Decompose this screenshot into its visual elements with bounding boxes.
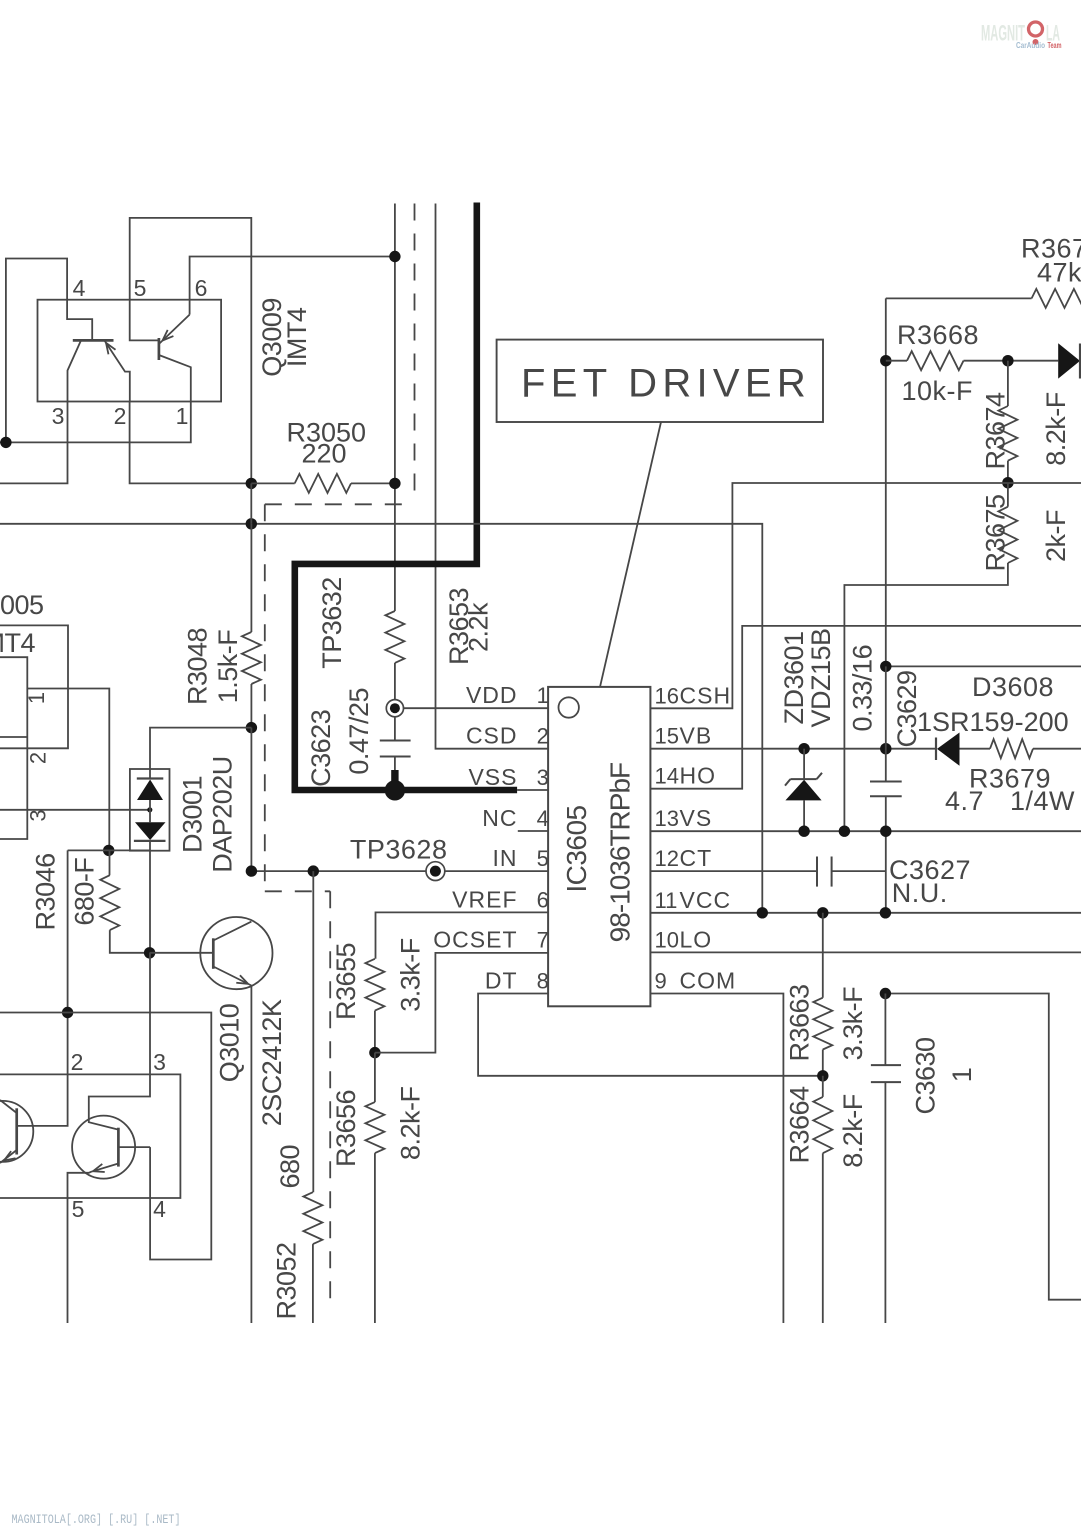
junction dot zener bottom: [798, 826, 809, 837]
dashed boundary horizontal y=891.3: [265, 890, 330, 892]
transistor bottom-left left NPN collector (cut): [0, 1100, 17, 1113]
svg-text:IMT4: IMT4: [282, 307, 312, 367]
wire HO pin14 net to right: [650, 626, 1081, 789]
leader line from FET DRIVER box to IC3605: [600, 422, 661, 687]
svg-text:R3674: R3674: [981, 392, 1011, 470]
wire x=885.8 vertical from y=298.4: [885, 298, 887, 666]
svg-text:3: 3: [52, 403, 65, 429]
svg-text:8.2k-F: 8.2k-F: [838, 1094, 868, 1168]
thick bus wire to VSS (pin 3) of IC3605: [295, 203, 517, 791]
svg-text:Team: Team: [1048, 41, 1062, 50]
junction dot R3655/R3656: [369, 1047, 380, 1058]
svg-text:VDD: VDD: [466, 682, 518, 708]
IC U3605 body IC3605 98-1036TRPbF: [548, 687, 650, 1006]
wire R3048 node down to IN line: [250, 728, 252, 872]
svg-text:8.2k-F: 8.2k-F: [396, 1087, 426, 1161]
svg-text:C3629: C3629: [892, 670, 922, 747]
svg-text:0.47/25: 0.47/25: [344, 688, 374, 775]
wire VS pin13 line: [650, 830, 1081, 832]
transistor Q3010 2SC2412K circle: [200, 917, 272, 989]
svg-text:680: 680: [275, 1145, 305, 1189]
wire Q3005 pin3 to D3001 center: [0, 809, 150, 811]
svg-text:47k: 47k: [1037, 258, 1081, 288]
transistor Q3010 collector: [213, 922, 251, 941]
svg-text:IN: IN: [493, 845, 518, 871]
wire D3001 net to bottom transistor collector: [89, 953, 150, 1130]
junction dot pins1-4 net: [0, 437, 11, 448]
resistor R3050 220: [251, 482, 294, 484]
svg-text:Q3005: Q3005: [0, 590, 44, 620]
diode D3001 upper diode: [137, 777, 164, 779]
resistor R3671 47k (cut at edge): [1032, 289, 1081, 308]
wire Q3009 pin4 internal staircase: [67, 300, 92, 341]
transistor bottom-left left NPN base bar: [15, 1108, 18, 1154]
wire dashed boundary vertical (x=414.5): [414, 204, 416, 500]
svg-text:C3630: C3630: [911, 1037, 941, 1114]
wire VDD pin1 from TP3632: [404, 707, 549, 709]
transistor bottom-left right NPN circle: [72, 1116, 135, 1179]
wire Q3009 pin1 to left edge (y=442.4): [0, 402, 191, 443]
transistor Q3009 right PNP emitter: [159, 315, 190, 344]
svg-text:VSS: VSS: [468, 764, 517, 790]
svg-text:R3663: R3663: [785, 984, 815, 1061]
transistor Q3009 right PNP base bar: [158, 338, 161, 360]
svg-text:9: 9: [655, 969, 667, 994]
transistor bottom-left left NPN circle (cut): [0, 1101, 33, 1162]
junction dot x=67.6 y=1012.5: [62, 1007, 73, 1018]
transistor Q3009 left PNP collector: [68, 340, 82, 401]
diode D3001 DAP202U outline box: [130, 769, 170, 851]
dashed boundary vertical x=264.8: [264, 504, 266, 891]
junction dot R3663/R3664 node: [817, 1070, 828, 1081]
svg-text:4.7: 4.7: [945, 786, 984, 816]
svg-text:3: 3: [537, 765, 549, 790]
wire COM pin9 line: [650, 994, 783, 1324]
svg-text:2: 2: [537, 724, 549, 749]
junction dot R3050 left: [246, 478, 257, 489]
svg-text:1: 1: [947, 1068, 977, 1083]
svg-text:16: 16: [655, 683, 679, 708]
resistor R3656 8.2k-F: [374, 1053, 376, 1103]
wire Q3005 pin1 to R3046/D3001 node: [27, 689, 109, 851]
svg-text:3: 3: [26, 809, 51, 821]
wire LO pin10 line: [650, 951, 1081, 953]
wire Q3009 pin5/collector loop top: [130, 218, 252, 484]
transistor Q3005 internal stub: [0, 736, 27, 738]
svg-text:2: 2: [114, 403, 127, 429]
transistor bottom-left right NPN base bar: [117, 1128, 120, 1167]
junction dot R3050 right: [389, 478, 400, 489]
IC pin1 marker circle: [559, 697, 579, 717]
svg-text:98-1036TRPbF: 98-1036TRPbF: [605, 763, 636, 942]
junction dot R3668 right: [1002, 355, 1013, 366]
svg-text:LO: LO: [680, 926, 713, 952]
svg-text:D3001: D3001: [178, 776, 208, 853]
svg-text:VS: VS: [680, 805, 713, 831]
wire CT pin12 line: [650, 870, 817, 872]
junction small dot D3001 center: [147, 807, 152, 812]
svg-text:OCSET: OCSET: [433, 927, 517, 953]
svg-text:10: 10: [655, 927, 679, 952]
resistor R3679 4.7 1/4W: [990, 739, 1033, 758]
junction dot C3629 top: [880, 661, 891, 672]
wire long horizontal net y=523.8 to VCC: [0, 524, 762, 913]
junction dot Q3010 base node: [144, 947, 155, 958]
svg-text:12: 12: [655, 846, 679, 871]
wire VB pin15 line: [650, 748, 936, 750]
zener diode ZD3601 VDZ15B: [803, 749, 805, 779]
svg-text:R3046: R3046: [31, 853, 61, 930]
svg-text:2.2k: 2.2k: [464, 602, 494, 652]
svg-text:IC3605: IC3605: [561, 805, 592, 892]
svg-text:0.33/16: 0.33/16: [848, 645, 878, 732]
svg-text:4: 4: [153, 1196, 166, 1222]
arrow bottom-left left NPN emitter: [2, 1151, 16, 1164]
svg-text:R3675: R3675: [981, 494, 1011, 571]
junction dot VCC x=885.4: [880, 907, 891, 918]
transistor Q3009 left PNP emitter: [104, 340, 129, 401]
wire left edge to node y=1012.5 and loop: [0, 1013, 211, 1260]
svg-text:CT: CT: [680, 845, 713, 871]
svg-text:D3608: D3608: [972, 672, 1054, 702]
wire IN pin5 line with test point: [251, 870, 548, 872]
arrow Q3009 right emitter: [160, 330, 174, 344]
svg-text:1SR159-200: 1SR159-200: [917, 707, 1069, 737]
svg-text:Q3010: Q3010: [215, 1004, 245, 1083]
resistor R3675 2k-F: [1007, 483, 1009, 507]
resistor R3655 3.3k-F: [365, 959, 384, 1011]
capacitor C3627 N.U.: [816, 857, 818, 887]
dashed boundary horizontal y=504: [265, 503, 410, 505]
junction dot VCC x=822.8: [817, 907, 828, 918]
wire Q3010 base line: [150, 952, 214, 954]
svg-text:8: 8: [537, 969, 549, 994]
svg-text:N.U.: N.U.: [892, 878, 948, 908]
capacitor C3630 1: [884, 994, 886, 1066]
junction dot C3629/VB: [880, 743, 891, 754]
watermark MAGNITOLA logo: [981, 21, 1062, 50]
svg-text:1.5k-F: 1.5k-F: [213, 630, 243, 704]
svg-text:1: 1: [176, 403, 189, 429]
svg-text:11: 11: [655, 888, 678, 913]
svg-text:3: 3: [153, 1049, 166, 1075]
wire Q3009 pin5 internal to right base: [130, 300, 159, 341]
svg-text:1: 1: [24, 692, 49, 704]
junction dot zener top: [798, 743, 809, 754]
svg-text:R3668: R3668: [897, 320, 979, 350]
capacitor C3623 0.47/25: [380, 740, 411, 742]
svg-text:7: 7: [537, 928, 549, 953]
svg-text:R3048: R3048: [183, 628, 213, 705]
wire D3001 center vertical: [149, 769, 151, 779]
svg-text:CSH: CSH: [680, 682, 732, 708]
test point TP3628: [426, 862, 445, 881]
svg-text:VCC: VCC: [680, 887, 732, 913]
wire Q3009 pin6 to node (y=256.5): [190, 257, 395, 315]
wire C3630 node loop to right edge: [885, 994, 1081, 1300]
junction dot x=844.4 on VS: [839, 826, 850, 837]
resistor R3046 680-F: [109, 850, 111, 875]
svg-text:HO: HO: [680, 763, 717, 789]
resistor R3653 2.2k: [385, 611, 404, 663]
svg-text:6: 6: [537, 888, 549, 913]
wire VREF pin6 to R3655: [376, 912, 549, 958]
transistor Q3009 left PNP base bar: [73, 339, 114, 342]
junction dot pin1/R3046 node: [103, 845, 114, 856]
junction dot IN at x=313.3: [308, 865, 319, 876]
svg-text:4: 4: [537, 806, 549, 831]
svg-text:R3656: R3656: [331, 1090, 361, 1167]
diode D top-right (cut at edge): [1058, 343, 1080, 378]
svg-text:2: 2: [26, 752, 51, 764]
wire top-right net y=298.4: [886, 297, 1032, 299]
transistor Q3009 right PNP collector: [159, 355, 191, 402]
svg-text:220: 220: [302, 439, 347, 469]
svg-text:COM: COM: [680, 968, 737, 994]
wire Q3009 pin3 to left edge (y=483.4): [0, 402, 68, 484]
transistor package Q3009 outline: [38, 300, 222, 402]
resistor R3663 3.3k-F: [822, 913, 824, 998]
transistor bottom-left left NPN emitter (cut): [0, 1150, 17, 1163]
svg-text:8.2k-F: 8.2k-F: [1041, 392, 1071, 466]
svg-text:3.3k-F: 3.3k-F: [396, 938, 426, 1012]
transistor Q3010 base bar: [212, 938, 215, 969]
svg-text:10k-F: 10k-F: [902, 376, 974, 406]
junction big dot VSS net: [385, 780, 405, 800]
svg-text:2: 2: [71, 1049, 84, 1075]
wire R3048 node to D3001 top: [150, 728, 251, 769]
arrow Q3010 emitter: [236, 975, 250, 987]
wire vertical net to CSD pin 2 (x=435.5): [436, 204, 549, 749]
svg-text:13: 13: [655, 806, 679, 831]
svg-text:CarAudio: CarAudio: [1016, 41, 1045, 50]
wire Q3010 emitter down: [250, 986, 252, 1324]
svg-text:TP3632: TP3632: [317, 577, 347, 669]
wire NC pin4 stub: [518, 830, 548, 832]
wire VSS pin3 thin segment: [517, 789, 548, 791]
test point TP3632: [386, 700, 403, 717]
resistor R3664 8.2k-F: [822, 1076, 824, 1097]
svg-text:CSD: CSD: [466, 723, 518, 749]
transistor bottom-left right NPN base lead to pin 4: [118, 1146, 150, 1148]
wire left net x=67.6 down: [17, 850, 68, 1126]
wire CSH pin16 net to top-right: [650, 483, 1081, 708]
transistor bottom-left right NPN emitter to pin 5: [68, 1164, 119, 1324]
svg-text:IMT4: IMT4: [0, 628, 35, 658]
junction dot C3629 bottom: [880, 826, 891, 837]
svg-text:C3623: C3623: [306, 710, 336, 787]
wire x=251.4 net R3048 top: [250, 483, 252, 523]
resistor R3052 680: [303, 1192, 322, 1244]
wire Q3009 pin2 to R3050 (y=483.4): [130, 402, 252, 484]
svg-text:MAGNITOLA[.ORG] [.RU] [.NET]: MAGNITOLA[.ORG] [.RU] [.NET]: [12, 1513, 181, 1527]
svg-text:14: 14: [655, 764, 679, 789]
svg-text:R3052: R3052: [272, 1242, 302, 1319]
svg-text:VREF: VREF: [452, 887, 517, 913]
svg-text:3.3k-F: 3.3k-F: [838, 987, 868, 1061]
arrow bottom-left right NPN emitter: [92, 1164, 105, 1175]
dashed boundary vertical x=330.2: [329, 891, 331, 1306]
svg-text:1/4W: 1/4W: [1010, 786, 1075, 816]
wire OCSET pin7 to R divider: [375, 953, 548, 1053]
transistor package Q3005 outline: [0, 657, 27, 839]
svg-text:5: 5: [134, 275, 147, 301]
svg-text:VB: VB: [680, 723, 713, 749]
resistor R3668 10k-F: [886, 360, 907, 362]
wire node y=850.4: [68, 849, 150, 851]
svg-text:2k-F: 2k-F: [1041, 510, 1071, 562]
svg-text:5: 5: [537, 846, 549, 871]
wire DT pin8 to R3663/R3664 node: [478, 994, 823, 1076]
svg-text:6: 6: [195, 275, 208, 301]
wire IN node down to R3052: [312, 871, 314, 1192]
resistor R3674 8.2k-F: [1007, 361, 1009, 406]
diode D3608 1SR159-200: [935, 738, 937, 761]
svg-text:ZD3601: ZD3601: [779, 631, 809, 724]
wire vertical net to R3050/C3623 (x=395): [394, 204, 396, 612]
svg-text:FET DRIVER: FET DRIVER: [521, 362, 811, 406]
junction dot R3674/R3675: [1002, 477, 1013, 488]
capacitor C3629 0.33/16: [885, 666, 887, 781]
svg-text:5: 5: [72, 1196, 85, 1222]
svg-text:DT: DT: [485, 968, 518, 994]
svg-text:4: 4: [73, 275, 86, 301]
svg-text:TP3628: TP3628: [350, 835, 448, 865]
svg-text:R3664: R3664: [785, 1086, 815, 1164]
transistor package Q3005 wire loop: [0, 625, 68, 748]
svg-text:VDZ15B: VDZ15B: [806, 628, 836, 727]
wire Q3009 pin4 loop to left edge: [6, 259, 67, 443]
svg-text:1: 1: [537, 683, 549, 708]
svg-text:R3655: R3655: [331, 943, 361, 1020]
svg-text:NC: NC: [482, 805, 517, 831]
svg-text:DAP202U: DAP202U: [208, 756, 238, 873]
wire VCC pin11 line: [650, 912, 1081, 914]
junction dot IN at x=251.4: [246, 865, 257, 876]
diode D3001 lower diode: [135, 822, 166, 840]
resistor R3048 1.5k-F: [250, 524, 252, 632]
transistor package bottom-left outline: [0, 1074, 180, 1198]
junction dot R3048 bottom: [246, 722, 257, 733]
transistor Q3010 emitter: [213, 967, 251, 986]
svg-text:2SC2412K: 2SC2412K: [257, 999, 287, 1126]
FET DRIVER callout box: [497, 340, 823, 422]
junction dot node y=256.5: [389, 251, 400, 262]
wire TP3632 to C3623: [394, 717, 396, 741]
svg-text:15: 15: [655, 724, 679, 749]
junction dot x=251 on y=523.8: [246, 518, 257, 529]
arrow Q3009 left emitter: [102, 341, 115, 355]
junction dot C3630 top: [880, 988, 891, 999]
junction dot VCC x=762.3: [757, 907, 768, 918]
wire net y=666.4 to right edge: [886, 665, 1081, 667]
junction dot R3668 left: [880, 355, 891, 366]
svg-text:680-F: 680-F: [70, 858, 100, 926]
